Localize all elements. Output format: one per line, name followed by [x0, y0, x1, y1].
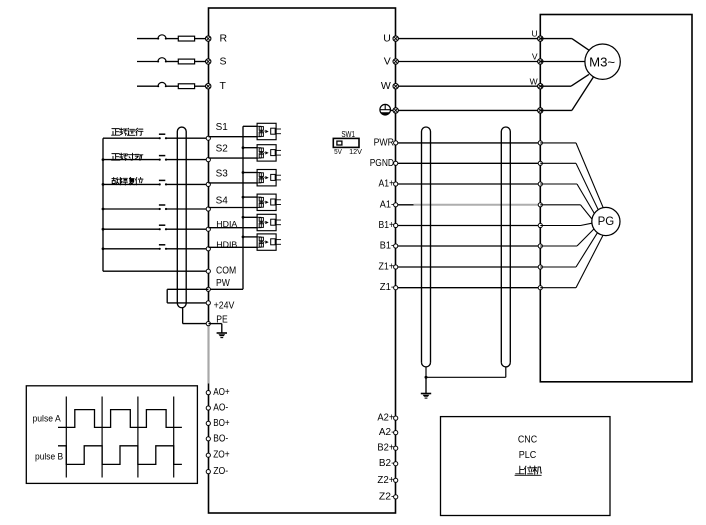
svg-text:AO-: AO- [213, 403, 228, 414]
svg-text:+24V: +24V [214, 300, 235, 312]
svg-text:HDIB: HDIB [216, 239, 237, 249]
svg-text:ZO-: ZO- [213, 466, 228, 477]
svg-text:PGND: PGND [370, 158, 394, 169]
svg-text:S3: S3 [216, 168, 229, 179]
svg-text:BO+: BO+ [213, 418, 230, 429]
svg-text:Z1-: Z1- [380, 282, 394, 293]
svg-text:U: U [531, 29, 537, 39]
svg-text:V: V [532, 52, 538, 62]
svg-text:R: R [220, 33, 228, 45]
svg-text:Z2+: Z2+ [377, 475, 394, 486]
svg-text:A1-: A1- [380, 199, 394, 210]
svg-text:CNC: CNC [518, 435, 537, 446]
svg-text:V: V [384, 56, 391, 68]
svg-text:U: U [383, 33, 391, 45]
svg-text:S1: S1 [216, 122, 229, 133]
svg-text:B1-: B1- [380, 241, 394, 252]
svg-text:B2-: B2- [379, 458, 395, 469]
svg-text:Z2-: Z2- [379, 491, 395, 502]
svg-text:A2-: A2- [379, 427, 395, 438]
svg-text:PE: PE [216, 313, 228, 325]
svg-text:Z1+: Z1+ [379, 262, 395, 273]
svg-text:S4: S4 [216, 195, 229, 206]
svg-text:ZO+: ZO+ [213, 450, 230, 461]
svg-text:PLC: PLC [519, 450, 537, 461]
svg-text:12V: 12V [349, 147, 362, 156]
svg-text:AO+: AO+ [213, 387, 230, 398]
svg-text:S: S [220, 56, 227, 68]
svg-text:PG: PG [598, 216, 615, 228]
svg-text:A2+: A2+ [377, 413, 394, 424]
svg-text:S2: S2 [216, 143, 229, 154]
svg-text:BO-: BO- [213, 433, 228, 444]
svg-text:W: W [530, 76, 538, 86]
svg-text:T: T [220, 80, 227, 92]
svg-text:B2+: B2+ [377, 443, 394, 454]
svg-text:HDIA: HDIA [216, 219, 237, 229]
svg-text:pulse A: pulse A [33, 413, 61, 423]
svg-text:PWR: PWR [374, 137, 394, 148]
svg-text:5V: 5V [334, 147, 342, 156]
svg-text:SW1: SW1 [341, 130, 355, 139]
svg-text:A1+: A1+ [379, 179, 395, 190]
svg-text:PW: PW [216, 277, 230, 289]
svg-text:B1+: B1+ [379, 220, 395, 231]
svg-text:pulse B: pulse B [35, 452, 63, 462]
svg-text:W: W [381, 80, 391, 92]
svg-text:M3~: M3~ [589, 55, 615, 70]
svg-text:COM: COM [216, 265, 236, 277]
